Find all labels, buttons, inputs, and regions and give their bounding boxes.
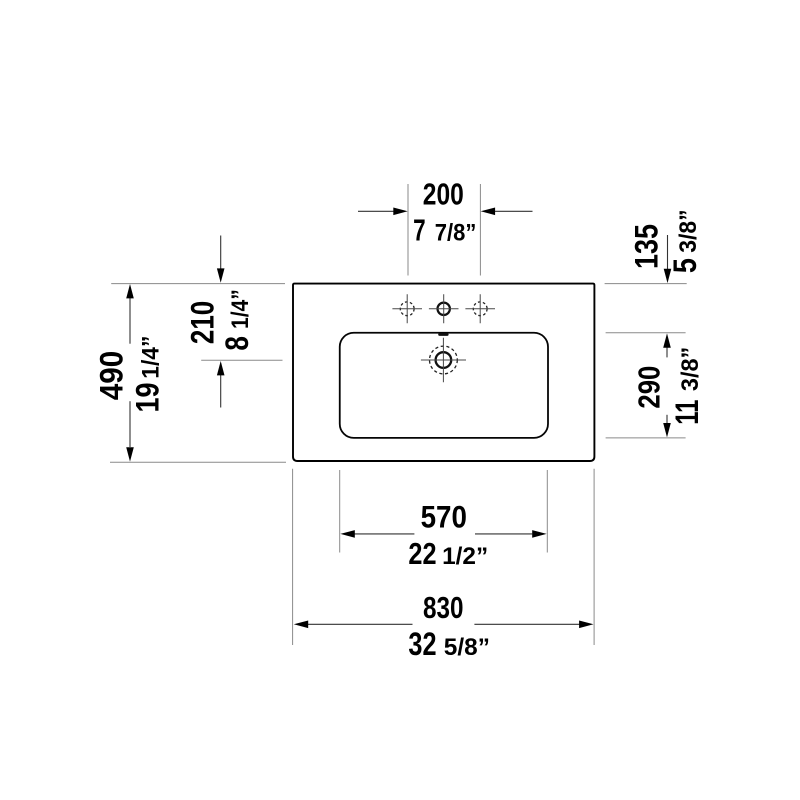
svg-text:1/4”: 1/4” [138,336,165,379]
faucet hole right crosshair [465,294,495,323]
faucet hole right (dashed) [473,302,487,316]
left extension line top (y283) [111,283,285,285]
svg-text:490: 490 [94,351,130,401]
dim 200 right arrow [494,210,533,212]
faucet hole center crosshair [429,294,459,323]
dim 200 left arrow [358,210,395,212]
svg-text:11: 11 [669,400,705,425]
faucet hole center (solid) [438,303,450,315]
svg-text:32: 32 [408,626,436,662]
dim 210 top arrow (down) [220,236,222,270]
svg-text:7: 7 [413,213,426,248]
dim 570 line right segment + right arrow [475,533,532,535]
basin outer rim [293,284,594,461]
svg-text:200: 200 [423,176,464,211]
svg-text:1/2”: 1/2” [442,543,488,570]
right extension line top (y283) [605,283,687,285]
svg-text:5/8”: 5/8” [444,634,490,661]
svg-text:8: 8 [219,336,255,351]
left extension line bottom (y461) [110,461,286,463]
svg-text:22: 22 [408,536,436,571]
svg-text:570: 570 [421,499,467,535]
faucet hole left (dashed) [400,302,414,316]
drain crosshair [421,338,466,382]
left extension line 210 (y360) [201,359,282,361]
drain inner (solid) [436,352,452,368]
drain outer (dashed) [430,346,458,374]
dim 135 arrow (down onto y283) [667,235,669,269]
right extension line low (y437.4) [606,437,686,439]
svg-text:3/8”: 3/8” [675,209,702,252]
svg-text:290: 290 [632,366,667,409]
dim 830 line left segment + left arrow [307,623,412,625]
dim 490 line lower segment with down arrow [129,401,131,447]
basin inner bowl [340,333,548,438]
svg-text:7/8”: 7/8” [435,220,477,247]
bottom extension line 830 right [593,469,595,645]
svg-text:3/8”: 3/8” [677,347,704,391]
svg-text:1/4”: 1/4” [227,289,254,329]
bottom extension line 570 right [546,470,548,553]
bottom extension line 570 left [339,470,341,553]
dim 290 bottom arrow (down) [666,415,668,424]
faucet hole left crosshair [392,294,422,323]
dim 200 extension lines [408,184,480,276]
svg-text:19: 19 [130,383,166,413]
right extension line mid (y332.6) [606,332,686,334]
svg-text:210: 210 [185,301,221,344]
bottom extension line 830 left [292,469,294,645]
overflow slot [438,333,448,336]
svg-text:830: 830 [423,590,464,625]
svg-text:135: 135 [629,224,665,269]
dim 210 bottom arrow (up) [220,375,222,408]
dim 830 line right segment + right arrow [474,623,579,625]
dim 290 top arrow (up) [666,347,668,358]
svg-text:5: 5 [667,258,703,273]
dim 570 line left segment + left arrow [354,533,414,535]
dim 490 line upper segment with up arrow [129,298,131,344]
